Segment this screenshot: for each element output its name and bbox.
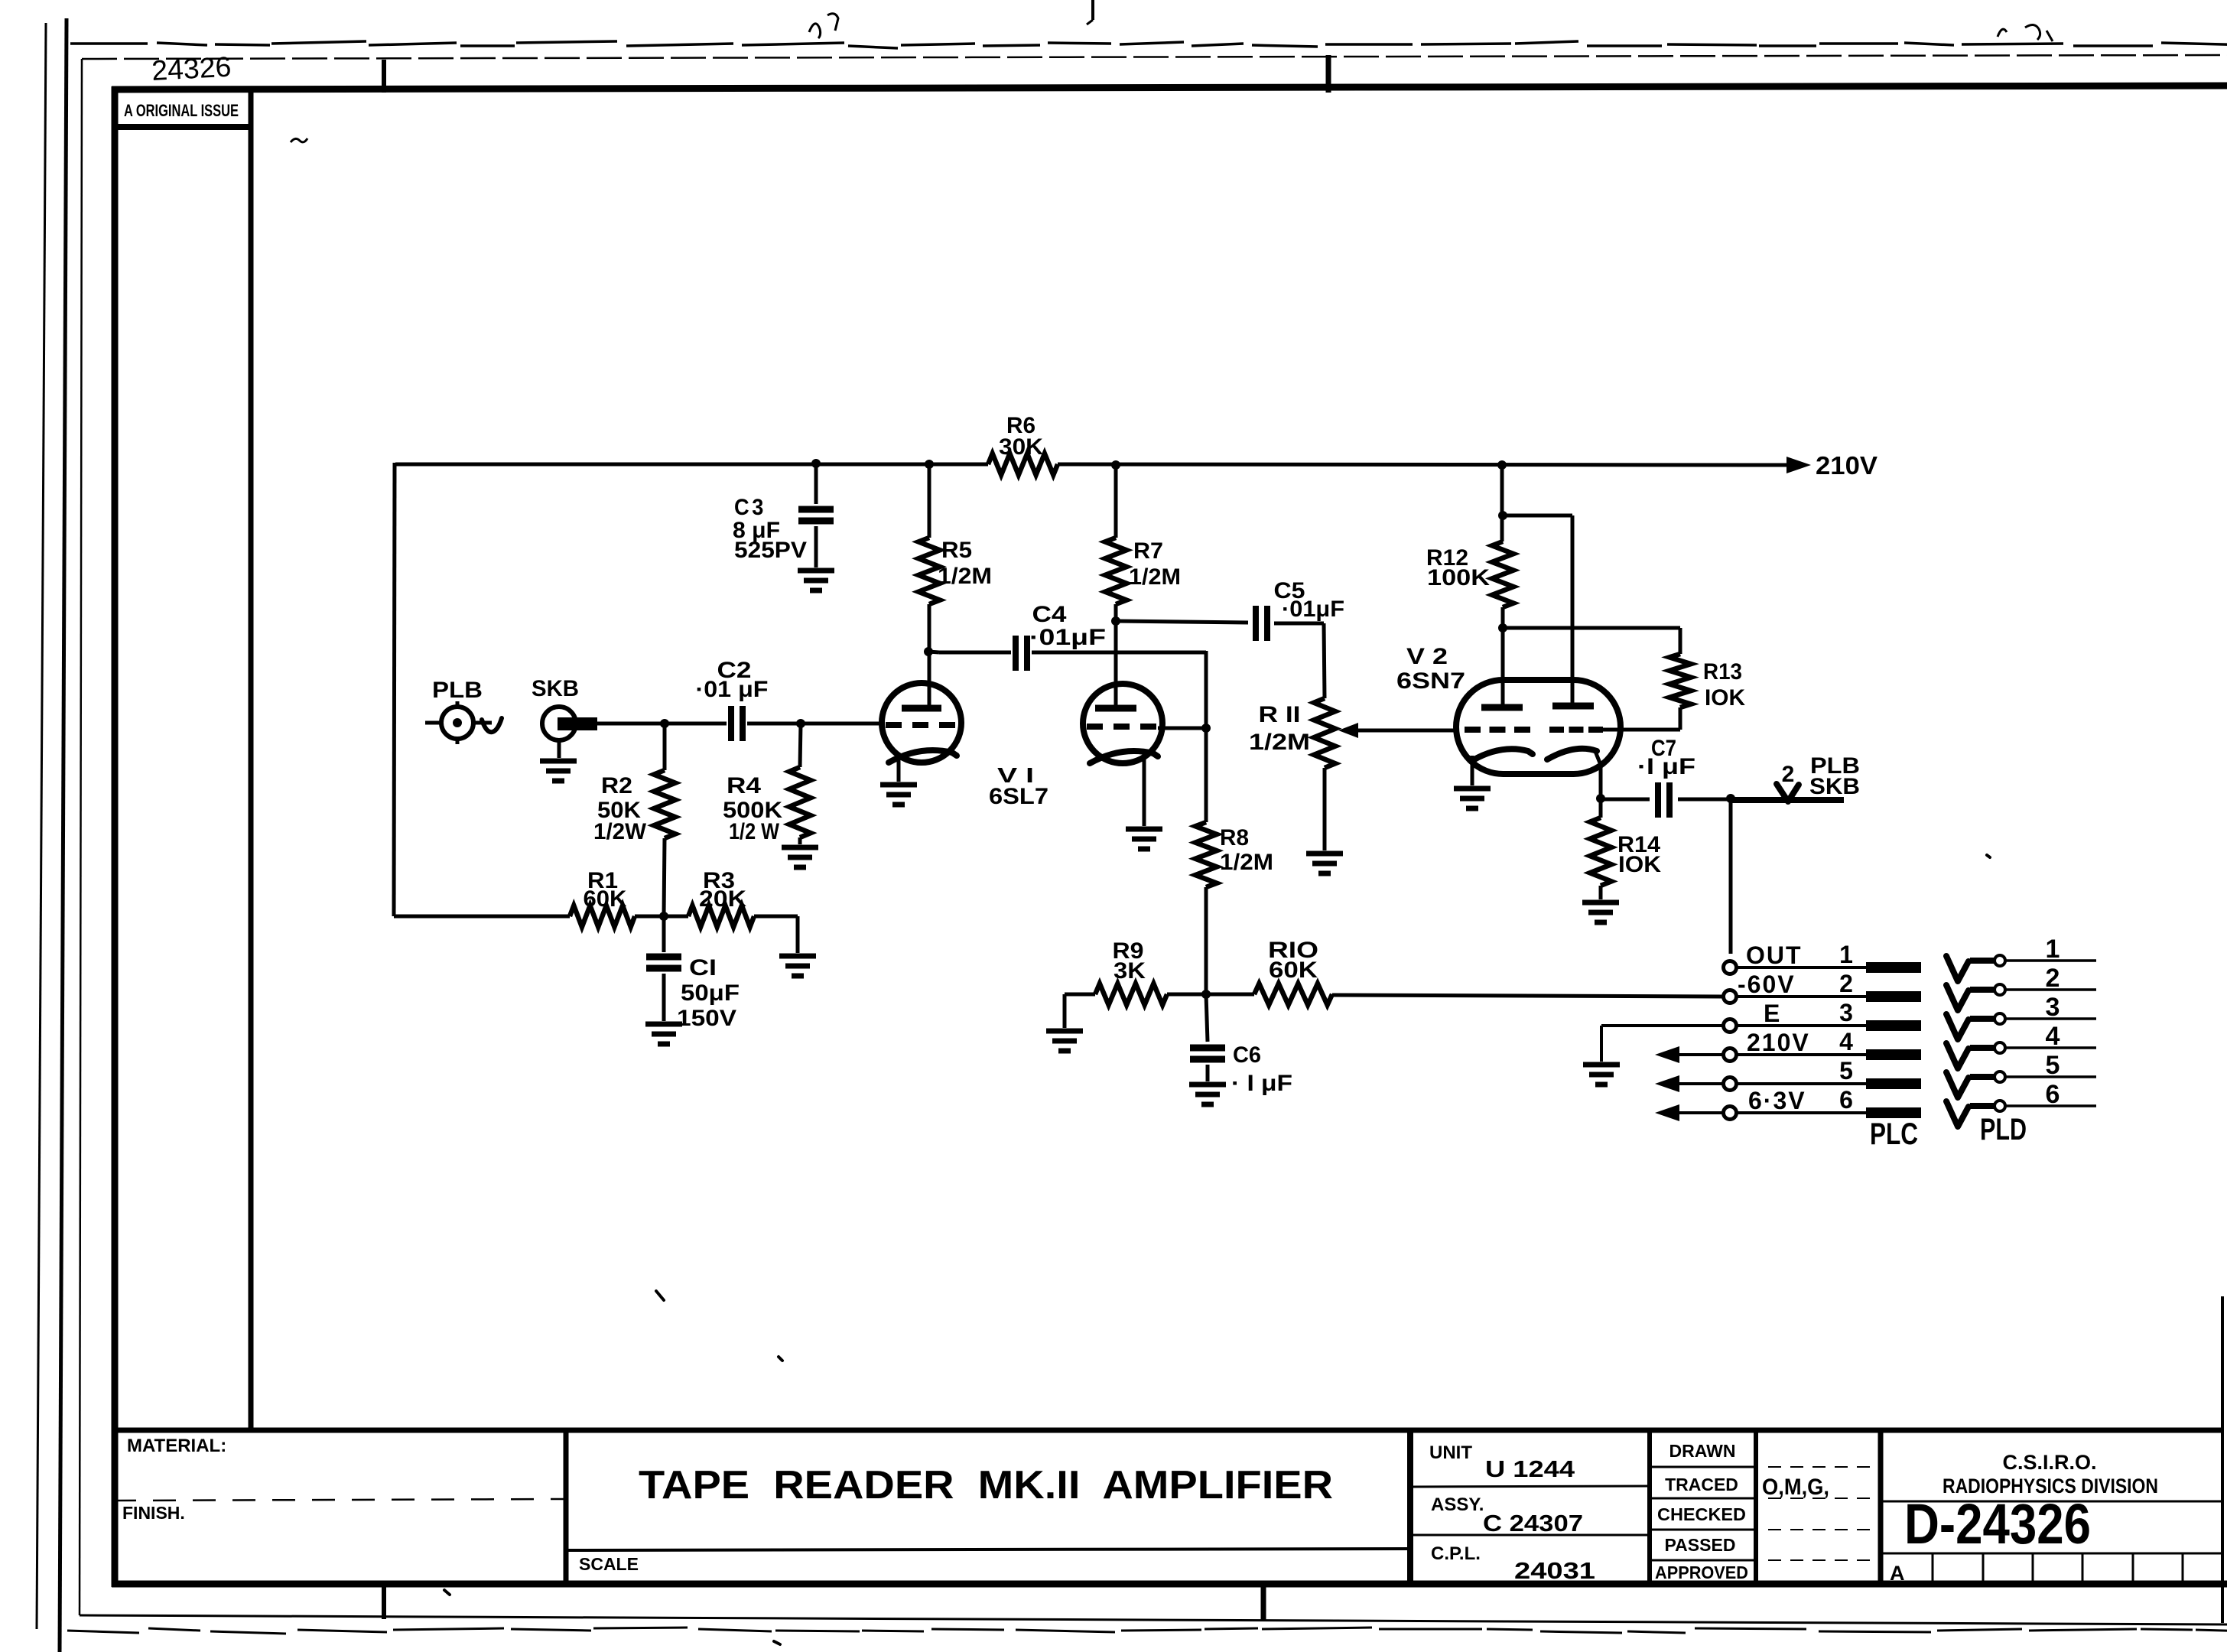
label R10: [1268, 938, 1318, 963]
ground below C3: [798, 571, 834, 590]
svg-text:SKB: SKB: [1809, 774, 1860, 799]
svg-text:2: 2: [1839, 970, 1853, 997]
title block divider drawn/initials: [1754, 1430, 1758, 1584]
ground below R4: [782, 847, 818, 867]
node rail-V2: [1497, 460, 1507, 470]
V2a cathode: [1473, 749, 1533, 760]
finish label: [122, 1503, 185, 1523]
resistor R3: [664, 906, 798, 953]
label R8 value 1/2M: [1220, 850, 1273, 875]
PLD pin 5 plug mark, circle and wire: [1946, 1072, 2096, 1098]
label PLD pin number 6: [2046, 1080, 2060, 1109]
pen scribble top right: [1998, 24, 2053, 41]
label C3: [734, 495, 766, 520]
label C7 value .1uF: [1637, 754, 1695, 779]
input wire SKB to C2: [596, 722, 727, 726]
capacitor C6: [1190, 994, 1225, 1081]
label R11: [1259, 702, 1301, 727]
ground below R11: [1306, 854, 1343, 873]
V2b control grid (dashed): [1549, 727, 1603, 733]
wire C2 to V1a grid: [747, 722, 882, 726]
210V arrowhead: [1786, 457, 1811, 473]
svg-text:C6: C6: [1233, 1042, 1261, 1068]
node input-R4: [796, 719, 805, 728]
node C7 output: [1726, 794, 1735, 803]
PLC pin 2 contact circle and wire: [1724, 990, 1867, 1003]
ground below V1a cathode: [880, 785, 917, 805]
svg-text:1/2W: 1/2W: [593, 819, 647, 844]
svg-text:SKB: SKB: [532, 676, 579, 701]
label PLD pin number 1: [2046, 935, 2060, 964]
node rail-R7: [1111, 460, 1120, 470]
label C5: [1274, 578, 1305, 603]
label R3: [703, 868, 735, 893]
svg-text:IOK: IOK: [1618, 852, 1661, 877]
svg-text:·01μF: ·01μF: [1029, 625, 1106, 650]
svg-text:DRAWN: DRAWN: [1669, 1441, 1736, 1461]
material label: [127, 1436, 226, 1456]
svg-text:1/2M: 1/2M: [938, 564, 992, 589]
PLD pin 3 plug mark, circle and wire: [1946, 1013, 2096, 1039]
unit value U 1244: [1485, 1455, 1575, 1482]
plug mark at output: [1777, 784, 1799, 802]
traced initials O.M.G.: [1762, 1475, 1829, 1500]
label C1 value 50uF: [681, 980, 740, 1006]
capacitor C7: [1601, 782, 1727, 818]
svg-text:SCALE: SCALE: [579, 1554, 639, 1574]
resistor R6: [988, 454, 1058, 475]
node R8-R9-R10-C6: [1201, 990, 1211, 999]
ground below V1b cathode: [1126, 829, 1162, 849]
svg-text:5: 5: [2046, 1051, 2060, 1080]
label R3 value 20K: [699, 886, 746, 912]
thin inner frame left: [80, 59, 82, 1615]
csiro/number divider: [1881, 1501, 2222, 1503]
svg-text:1: 1: [1839, 941, 1853, 968]
label R13: [1703, 659, 1742, 685]
label C7: [1651, 736, 1676, 761]
label PLC pin number 4: [1839, 1028, 1853, 1055]
thin inner frame bottom: [80, 1615, 2227, 1624]
label net -60V (pin 2): [1738, 971, 1796, 998]
label PLD pin number 4: [2046, 1022, 2060, 1051]
svg-text:O,M,G,: O,M,G,: [1762, 1475, 1829, 1500]
checked label: [1657, 1504, 1746, 1524]
label PLC: [1870, 1117, 1918, 1151]
svg-text:4: 4: [1839, 1028, 1853, 1055]
svg-text:A: A: [1890, 1562, 1905, 1585]
label V2: [1406, 644, 1448, 669]
svg-text:C4: C4: [1032, 602, 1067, 627]
PLC pin 3 contact bar: [1866, 1020, 1921, 1031]
V2b cathode and lead: [1547, 749, 1601, 797]
PLC pin 5 contact circle and wire: [1724, 1078, 1867, 1091]
rough top scan edge line: [70, 41, 2227, 48]
label PLC pin number 1: [1839, 941, 1853, 968]
ground below V2a cathode: [1454, 789, 1491, 808]
svg-text:·I μF: ·I μF: [1637, 754, 1695, 779]
unit label: [1429, 1442, 1472, 1463]
sign-off row dividers: [1650, 1467, 1756, 1560]
label PLB: [432, 678, 483, 703]
revision letter A: [1890, 1562, 1905, 1585]
title block divider initials/csiro: [1878, 1428, 1884, 1584]
svg-text:1/2M: 1/2M: [1249, 730, 1310, 755]
drawn label: [1669, 1441, 1736, 1461]
initials column rules: [1768, 1467, 1871, 1560]
svg-text:-60V: -60V: [1738, 971, 1796, 998]
node R1-R3-C1: [659, 912, 668, 921]
svg-text:CI: CI: [689, 955, 717, 980]
label R9 value 3K: [1113, 958, 1146, 984]
revision strip cell dividers: [1933, 1553, 2183, 1584]
svg-text:1: 1: [2046, 935, 2060, 964]
ground left of R9: [1046, 994, 1095, 1051]
resistor R14: [1590, 798, 1611, 899]
svg-text:CHECKED: CHECKED: [1657, 1504, 1746, 1524]
valve V1 envelope (first triode): [882, 683, 961, 763]
unit row divider: [1410, 1486, 1650, 1487]
node R12 top tap: [1498, 511, 1507, 520]
drawing number D-24326: [1904, 1492, 2091, 1556]
svg-text:·01 μF: ·01 μF: [696, 677, 769, 702]
label R1 value 60K: [584, 886, 627, 912]
ground below SKB: [540, 740, 577, 781]
V1a cathode lead: [897, 757, 901, 782]
V1b grid stub wire: [1158, 727, 1206, 730]
label net OUT (pin 1): [1746, 941, 1803, 969]
svg-text:C 24307: C 24307: [1483, 1510, 1583, 1537]
assy value C 24307: [1483, 1510, 1583, 1537]
drawing border right (partial): [2221, 1296, 2224, 1623]
wire C7 node to OUT pin: [1729, 798, 1733, 954]
arrow into pin 4 (210V feed): [1655, 1046, 1723, 1063]
wire R10 to pin 2: [1332, 995, 1722, 997]
label C2 value .01uF: [696, 677, 769, 702]
label R14: [1617, 832, 1660, 857]
svg-text:ASSY.: ASSY.: [1431, 1494, 1484, 1515]
label net E (pin 3): [1764, 1000, 1781, 1027]
label R5 value 1/2M: [938, 564, 992, 589]
svg-text:R2: R2: [601, 773, 632, 798]
svg-text:TAPE READER MK.II AMPLIFIER: TAPE READER MK.II AMPLIFIER: [639, 1463, 1333, 1507]
label R13 value 10K: [1705, 685, 1745, 711]
V2b anode wire: [1502, 467, 1572, 706]
registration tick bottom-left: [382, 1584, 386, 1619]
svg-text:3K: 3K: [1113, 958, 1146, 984]
ground below R14: [1582, 902, 1619, 922]
node input-R2: [660, 719, 669, 728]
svg-text:·01μF: ·01μF: [1282, 597, 1344, 622]
PLD pin 6 plug mark, circle and wire: [1946, 1101, 2096, 1127]
svg-text:R II: R II: [1259, 702, 1301, 727]
resistor R1: [570, 906, 664, 927]
label C1: [689, 955, 717, 980]
registration tick top-edge: [1087, 0, 1093, 24]
resistor R9: [1095, 984, 1206, 1005]
svg-text:60K: 60K: [1269, 958, 1318, 983]
V1b cathode: [1090, 751, 1158, 763]
V1b control grid (dashed): [1087, 724, 1159, 730]
V2a cathode lead: [1471, 756, 1474, 785]
svg-text:R4: R4: [727, 773, 761, 798]
paper left edge line (outer): [37, 18, 67, 1652]
label PLC pin number 6: [1839, 1086, 1853, 1114]
wire pin3 E to ground: [1601, 1026, 1723, 1062]
svg-text:100K: 100K: [1427, 565, 1490, 590]
csiro heading: [2002, 1451, 2096, 1474]
label C2: [717, 658, 752, 683]
thin inner frame top (dashed): [82, 55, 2227, 59]
svg-text:60K: 60K: [584, 886, 627, 912]
resistor R2: [654, 724, 675, 916]
svg-text:1/2M: 1/2M: [1129, 564, 1181, 590]
PLC pin 5 contact bar: [1866, 1078, 1921, 1089]
label PLC pin number 3: [1839, 999, 1853, 1026]
svg-text:R8: R8: [1220, 825, 1249, 850]
svg-text:2: 2: [2046, 964, 2060, 993]
node V1b grid / R8: [1201, 724, 1211, 733]
V2a anode plate: [1481, 704, 1523, 711]
svg-text:D-24326: D-24326: [1904, 1492, 2091, 1556]
PLC pin 4 contact bar: [1866, 1049, 1921, 1060]
svg-text:210V: 210V: [1747, 1029, 1810, 1056]
label R4 value 1/2W: [729, 819, 780, 844]
pen scribble top centre: [809, 14, 838, 38]
approved label: [1655, 1563, 1748, 1582]
resistor R12: [1492, 541, 1513, 707]
label PLD pin number 5: [2046, 1051, 2060, 1080]
label C5 value .01uF: [1282, 597, 1344, 622]
ground below C6: [1189, 1085, 1226, 1104]
label SKB: [532, 676, 579, 701]
210V supply rail wire: [395, 464, 1786, 465]
label net 210V (pin 4): [1747, 1029, 1810, 1056]
label R12: [1426, 545, 1468, 571]
ground below C1: [645, 1024, 682, 1044]
passed label: [1665, 1535, 1736, 1555]
V1a anode plate: [902, 705, 941, 712]
revision column divider: [249, 89, 254, 1430]
label C4: [1032, 602, 1067, 627]
svg-text:20K: 20K: [699, 886, 746, 912]
svg-text:R13: R13: [1703, 659, 1742, 685]
connector SKB (input socket): [542, 707, 597, 740]
svg-text:210V: 210V: [1816, 451, 1878, 480]
assy label: [1431, 1494, 1484, 1515]
label net 6·3V (pin 6): [1748, 1087, 1806, 1114]
PLC pin 6 contact circle and wire: [1724, 1107, 1867, 1120]
svg-text:PLB: PLB: [432, 678, 483, 703]
svg-text:TRACED: TRACED: [1665, 1475, 1738, 1494]
material/finish dashed divider: [113, 1499, 564, 1501]
resistor R7: [1105, 465, 1127, 708]
label C1 value 150V: [677, 1006, 736, 1031]
svg-text:R7: R7: [1133, 538, 1163, 564]
svg-text:3: 3: [1839, 999, 1853, 1026]
label R2 value 1/2W: [593, 819, 647, 844]
svg-text:525PV: 525PV: [734, 538, 807, 563]
ground below R3: [779, 956, 816, 976]
PLC pin 1 contact bar: [1866, 962, 1921, 973]
svg-text:C3: C3: [734, 495, 766, 520]
V2b anode plate: [1552, 703, 1594, 710]
label output PLB: [1810, 753, 1860, 779]
capacitor C2: [731, 706, 743, 741]
PLC pin 6 contact bar: [1866, 1107, 1921, 1118]
connector PLB (input plug): [425, 701, 502, 744]
svg-text:V 2: V 2: [1406, 644, 1448, 669]
capacitor C5: [1116, 606, 1324, 641]
label R7 value 1/2M: [1129, 564, 1181, 590]
svg-text:50μF: 50μF: [681, 980, 740, 1006]
svg-text:IOK: IOK: [1705, 685, 1745, 711]
label R9: [1113, 938, 1144, 964]
resistor R8: [1195, 728, 1217, 994]
label PLD pin number 3: [2046, 993, 2060, 1022]
pen mark near revision box: [291, 138, 307, 142]
node V1a anode / C4 tap: [924, 647, 933, 656]
svg-text:30K: 30K: [999, 434, 1043, 460]
label R6 value 30K: [999, 434, 1043, 460]
svg-text:3: 3: [2046, 993, 2060, 1022]
registration tick bottom-mid: [1261, 1586, 1266, 1621]
label R7: [1133, 538, 1163, 564]
svg-text:C.S.I.R.O.: C.S.I.R.O.: [2002, 1451, 2096, 1474]
resistor R5: [918, 464, 940, 708]
svg-text:5: 5: [1839, 1057, 1853, 1085]
arrow into pin 6 (6.3V feed): [1655, 1104, 1723, 1121]
cpl value 24031: [1514, 1557, 1595, 1584]
rough bottom scan edge line: [67, 1628, 2227, 1634]
resistor R10: [1206, 984, 1332, 1005]
resistor R4: [789, 724, 811, 844]
V1b cathode lead: [1143, 758, 1146, 826]
label C3 value 8uF: [733, 518, 780, 543]
PLC pin 1 contact circle and wire: [1724, 961, 1867, 974]
capacitor C3: [798, 464, 834, 567]
V1a control grid (dashed): [886, 722, 957, 728]
drawing border top (thick): [112, 86, 2227, 89]
label R4 value 500K: [723, 798, 782, 823]
svg-text:4: 4: [2046, 1022, 2060, 1051]
svg-text:A ORIGINAL ISSUE: A ORIGINAL ISSUE: [124, 101, 239, 120]
resistor R13: [1503, 628, 1691, 730]
R11 wiper arrow: [1338, 723, 1456, 738]
capacitor C1: [646, 916, 681, 1021]
PLC pin 3 contact circle and wire: [1724, 1019, 1867, 1032]
label R2 value 50K: [597, 798, 641, 823]
svg-text:PASSED: PASSED: [1665, 1535, 1736, 1555]
drawing title TAPE READER MK.II AMPLIFIER: [639, 1463, 1333, 1507]
left rail wire (down and right to R1): [394, 463, 570, 916]
label PLC pin number 2: [1839, 970, 1853, 997]
potentiometer R11: [1314, 623, 1335, 850]
label R8: [1220, 825, 1249, 850]
label C4 value .01uF: [1029, 625, 1106, 650]
label R1: [587, 868, 618, 893]
radiophysics division heading: [1943, 1475, 2158, 1498]
label output SKB: [1809, 774, 1860, 799]
label C6 value .1uF: [1231, 1071, 1292, 1096]
node V2b cathode / R14 / C7: [1596, 794, 1605, 803]
svg-text:24031: 24031: [1514, 1557, 1595, 1584]
label V2 type 6SN7: [1396, 668, 1465, 694]
label R5: [941, 538, 972, 563]
svg-text:R5: R5: [941, 538, 972, 563]
registration tick top-left: [382, 60, 386, 93]
svg-text:6SL7: 6SL7: [989, 784, 1048, 809]
assy row divider: [1410, 1534, 1650, 1537]
ground on pin 3 (E): [1583, 1065, 1620, 1085]
node V2a anode / R13 wire: [1498, 623, 1507, 633]
cpl label: [1431, 1543, 1481, 1564]
number/revision divider: [1881, 1553, 2222, 1555]
label PLD: [1980, 1113, 2027, 1146]
valve V1 envelope (second triode): [1083, 684, 1162, 763]
stray pen specks: [444, 855, 1990, 1644]
svg-text:FINISH.: FINISH.: [122, 1503, 185, 1523]
label PLD pin number 2: [2046, 964, 2060, 993]
label C6: [1233, 1042, 1261, 1068]
title block top line: [112, 1428, 2224, 1433]
svg-text:· I μF: · I μF: [1231, 1071, 1292, 1096]
PLD pin 2 plug mark, circle and wire: [1946, 984, 2096, 1010]
registration tick top-right: [1326, 55, 1331, 93]
V1a cathode: [889, 750, 957, 763]
svg-text:PLC: PLC: [1870, 1117, 1918, 1151]
svg-text:6·3V: 6·3V: [1748, 1087, 1806, 1114]
svg-text:1/2M: 1/2M: [1220, 850, 1273, 875]
V1b anode plate: [1095, 705, 1136, 712]
scale label: [579, 1554, 639, 1574]
title block divider title/unit: [1407, 1428, 1413, 1584]
svg-text:6: 6: [1839, 1086, 1853, 1114]
PLC pin 4 contact circle and wire: [1724, 1049, 1867, 1062]
node rail-C3: [811, 459, 821, 468]
svg-text:MATERIAL:: MATERIAL:: [127, 1436, 226, 1456]
svg-text:6: 6: [2046, 1080, 2060, 1109]
node V1b anode / C5 tap: [1111, 616, 1120, 626]
drawing border left (thick): [112, 86, 119, 1587]
label R6: [1006, 413, 1035, 438]
PLD pin 1 plug mark, circle and wire: [1946, 955, 2096, 981]
revision box underline: [115, 124, 251, 130]
svg-text:PLD: PLD: [1980, 1113, 2027, 1146]
svg-text:2: 2: [1782, 762, 1795, 787]
scale divider line: [566, 1549, 1410, 1550]
svg-text:1/2 W: 1/2 W: [729, 819, 780, 844]
label output pin number 2: [1782, 762, 1795, 787]
wire C4 to V1b grid: [1205, 651, 1208, 728]
title block divider material/title: [564, 1430, 569, 1584]
valve V2 envelope: [1456, 680, 1621, 774]
label V1 type 6SL7: [989, 784, 1048, 809]
drawing border bottom (thick): [112, 1581, 2227, 1588]
title block divider unit/drawn: [1647, 1430, 1652, 1584]
svg-text:C.P.L.: C.P.L.: [1431, 1543, 1481, 1564]
svg-text:U 1244: U 1244: [1485, 1455, 1575, 1482]
svg-text:24326: 24326: [151, 51, 232, 86]
label R4: [727, 773, 761, 798]
label PLC pin number 5: [1839, 1057, 1853, 1085]
revision note A ORIGINAL ISSUE: [124, 101, 239, 120]
label C3 value 525PV: [734, 538, 807, 563]
label R12 value 100K: [1427, 565, 1490, 590]
V2b grid wire to R13: [1601, 728, 1680, 732]
label R2: [601, 773, 632, 798]
svg-text:150V: 150V: [677, 1006, 736, 1031]
